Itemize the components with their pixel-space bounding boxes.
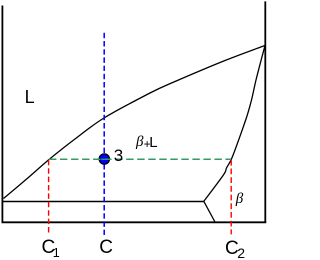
- label L: [25, 88, 35, 106]
- red dashed line C2: [230, 160, 232, 235]
- blue dashed composition line C: [103, 33, 105, 235]
- line below eutectic to x-axis: [204, 201, 215, 222]
- beta solvus curve: [204, 46, 265, 202]
- red dashed line C1: [48, 160, 50, 233]
- label 3: [114, 147, 123, 164]
- eutectic horizontal line: [2, 201, 204, 203]
- y-axis left: [1, 6, 3, 224]
- label C1: [42, 238, 60, 259]
- liquidus curve: [4, 46, 266, 199]
- green dash stub over dot: [101, 158, 104, 160]
- label beta+L: [136, 135, 143, 150]
- x-axis bottom: [2, 221, 267, 223]
- green dashed tie line: [49, 158, 231, 160]
- blue point 3: [99, 154, 109, 164]
- label beta region: [236, 191, 243, 207]
- label C: [99, 238, 113, 257]
- y-axis right: [264, 1, 266, 223]
- label C2: [225, 239, 245, 260]
